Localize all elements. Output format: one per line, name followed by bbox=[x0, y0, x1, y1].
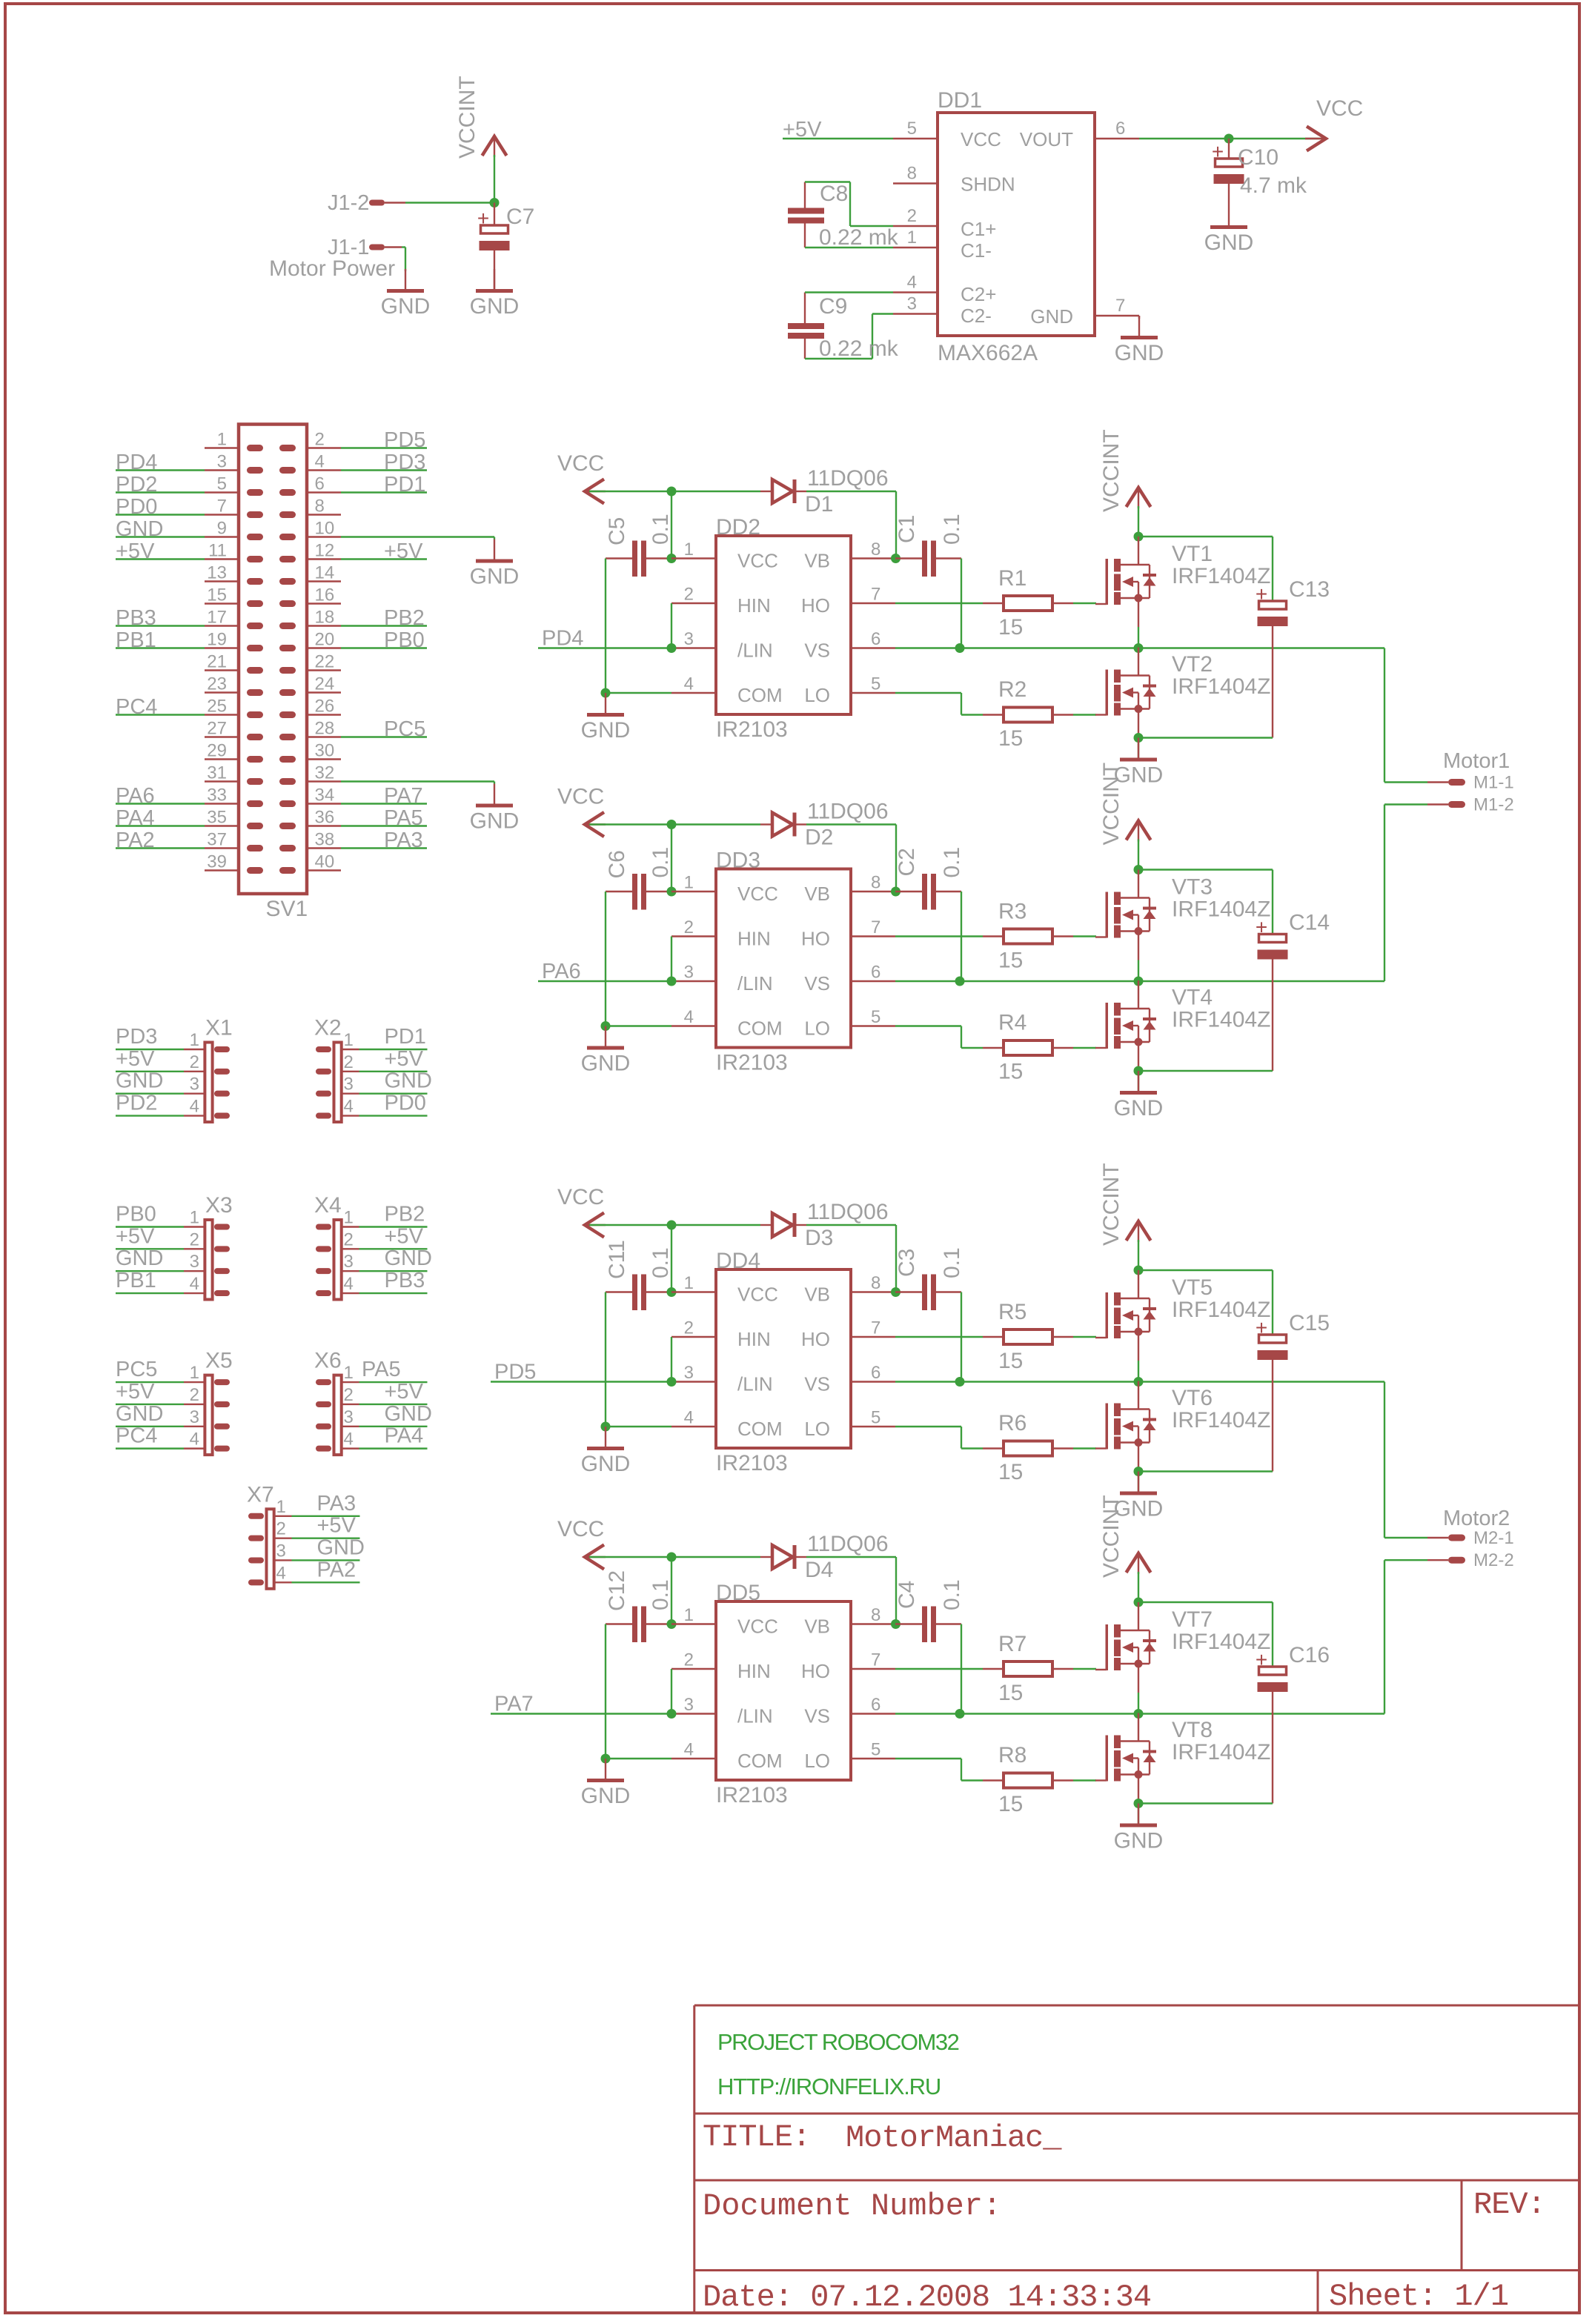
svg-text:REV:: REV: bbox=[1473, 2187, 1545, 2222]
svg-text:IRF1404Z: IRF1404Z bbox=[1172, 1408, 1270, 1432]
svg-text:M1-2: M1-2 bbox=[1473, 795, 1514, 815]
svg-text:PA3: PA3 bbox=[384, 829, 423, 852]
svg-text:X3: X3 bbox=[205, 1193, 233, 1218]
svg-text:3: 3 bbox=[344, 1407, 354, 1427]
svg-text:Date: 07.12.2008 14:33:34: Date: 07.12.2008 14:33:34 bbox=[703, 2280, 1151, 2315]
svg-text:VT2: VT2 bbox=[1172, 652, 1213, 677]
svg-text:/LIN: /LIN bbox=[737, 1705, 773, 1727]
svg-text:HO: HO bbox=[801, 594, 830, 617]
svg-text:VCC: VCC bbox=[1316, 96, 1363, 121]
svg-text:PD0: PD0 bbox=[385, 1092, 426, 1115]
svg-text:0.1: 0.1 bbox=[649, 1579, 673, 1610]
svg-text:VS: VS bbox=[804, 640, 830, 662]
svg-text:PB3: PB3 bbox=[116, 606, 156, 630]
svg-text:2: 2 bbox=[344, 1385, 354, 1405]
svg-text:PD5: PD5 bbox=[494, 1361, 536, 1384]
svg-text:SV1: SV1 bbox=[266, 897, 308, 921]
svg-text:3: 3 bbox=[684, 629, 694, 649]
svg-text:4: 4 bbox=[190, 1274, 199, 1294]
svg-text:6: 6 bbox=[1115, 119, 1125, 139]
svg-text:6: 6 bbox=[871, 629, 880, 649]
svg-text:10: 10 bbox=[315, 519, 335, 539]
svg-text:36: 36 bbox=[315, 808, 335, 828]
svg-text:15: 15 bbox=[998, 1060, 1023, 1084]
svg-text:2: 2 bbox=[315, 430, 325, 450]
svg-text:VCC: VCC bbox=[737, 1616, 778, 1638]
svg-text:R5: R5 bbox=[998, 1300, 1026, 1324]
svg-text:GND: GND bbox=[470, 294, 520, 319]
svg-text:3: 3 bbox=[190, 1252, 199, 1272]
svg-text:7: 7 bbox=[871, 585, 880, 605]
svg-text:8: 8 bbox=[315, 497, 325, 517]
svg-text:PA3: PA3 bbox=[317, 1492, 356, 1515]
svg-text:4: 4 bbox=[344, 1430, 354, 1450]
svg-text:0.1: 0.1 bbox=[649, 1247, 673, 1278]
svg-text:VT1: VT1 bbox=[1172, 542, 1213, 566]
svg-text:C4: C4 bbox=[895, 1581, 919, 1609]
svg-text:VS: VS bbox=[804, 972, 830, 995]
svg-text:5: 5 bbox=[871, 1740, 880, 1760]
svg-text:LO: LO bbox=[804, 1750, 830, 1772]
svg-text:C2+: C2+ bbox=[961, 283, 996, 305]
svg-text:VCCINT: VCCINT bbox=[1099, 1163, 1124, 1246]
svg-text:VB: VB bbox=[804, 1284, 830, 1306]
svg-text:1: 1 bbox=[684, 539, 694, 560]
svg-text:PD1: PD1 bbox=[384, 473, 425, 497]
svg-text:GND: GND bbox=[116, 1246, 163, 1270]
svg-text:DD5: DD5 bbox=[716, 1581, 760, 1605]
svg-text:6: 6 bbox=[871, 1363, 880, 1383]
svg-text:IRF1404Z: IRF1404Z bbox=[1172, 674, 1270, 699]
svg-text:VCC: VCC bbox=[557, 1517, 604, 1541]
svg-text:COM: COM bbox=[737, 1750, 783, 1772]
svg-text:HO: HO bbox=[801, 1660, 830, 1682]
svg-text:6: 6 bbox=[871, 963, 880, 983]
svg-text:COM: COM bbox=[737, 684, 783, 706]
svg-text:PD5: PD5 bbox=[384, 428, 425, 452]
svg-text:4: 4 bbox=[276, 1563, 286, 1583]
svg-text:40: 40 bbox=[315, 852, 335, 872]
svg-text:LO: LO bbox=[804, 1017, 830, 1040]
svg-text:VCCINT: VCCINT bbox=[1099, 429, 1124, 512]
svg-text:VS: VS bbox=[804, 1705, 830, 1727]
svg-text:C1-: C1- bbox=[961, 239, 992, 262]
svg-text:VCC: VCC bbox=[737, 883, 778, 905]
svg-text:R2: R2 bbox=[998, 677, 1026, 702]
svg-text:VB: VB bbox=[804, 550, 830, 572]
svg-text:C2: C2 bbox=[895, 848, 919, 876]
svg-text:MAX662A: MAX662A bbox=[938, 341, 1038, 365]
svg-text:Motor Power: Motor Power bbox=[269, 256, 395, 281]
svg-text:/LIN: /LIN bbox=[737, 640, 773, 662]
svg-text:2: 2 bbox=[684, 585, 694, 605]
svg-text:GND: GND bbox=[470, 565, 520, 589]
svg-text:PA6: PA6 bbox=[116, 784, 155, 808]
svg-text:D3: D3 bbox=[805, 1226, 833, 1250]
svg-text:HIN: HIN bbox=[737, 1328, 771, 1350]
svg-text:1: 1 bbox=[907, 228, 917, 248]
svg-text:4: 4 bbox=[190, 1097, 199, 1117]
svg-text:GND: GND bbox=[116, 1402, 163, 1426]
svg-text:PB3: PB3 bbox=[385, 1269, 425, 1292]
svg-text:1: 1 bbox=[684, 873, 694, 893]
svg-text:5: 5 bbox=[217, 474, 227, 494]
svg-text:IR2103: IR2103 bbox=[716, 1051, 788, 1075]
svg-text:HTTP://IRONFELIX.RU: HTTP://IRONFELIX.RU bbox=[717, 2074, 941, 2099]
svg-text:7: 7 bbox=[217, 497, 227, 517]
svg-text:3: 3 bbox=[684, 1695, 694, 1715]
svg-text:GND: GND bbox=[381, 294, 431, 319]
svg-text:X2: X2 bbox=[314, 1016, 342, 1040]
svg-text:11DQ06: 11DQ06 bbox=[807, 1532, 889, 1556]
svg-text:16: 16 bbox=[315, 585, 335, 605]
svg-text:7: 7 bbox=[1115, 296, 1125, 316]
svg-text:2: 2 bbox=[344, 1052, 354, 1072]
svg-text:R6: R6 bbox=[998, 1411, 1026, 1435]
svg-text:VCCINT: VCCINT bbox=[1099, 1495, 1124, 1578]
svg-text:VT6: VT6 bbox=[1172, 1386, 1213, 1410]
svg-text:VT5: VT5 bbox=[1172, 1275, 1213, 1300]
svg-text:DD2: DD2 bbox=[716, 515, 760, 539]
svg-text:24: 24 bbox=[315, 674, 335, 694]
svg-text:1: 1 bbox=[276, 1497, 286, 1517]
svg-text:GND: GND bbox=[385, 1069, 432, 1093]
svg-text:0.1: 0.1 bbox=[940, 514, 964, 545]
svg-text:3: 3 bbox=[276, 1541, 286, 1561]
svg-text:8: 8 bbox=[871, 873, 880, 893]
svg-text:15: 15 bbox=[998, 615, 1023, 640]
svg-text:VT4: VT4 bbox=[1172, 986, 1213, 1010]
svg-text:D2: D2 bbox=[805, 826, 833, 850]
svg-text:4: 4 bbox=[344, 1274, 354, 1294]
svg-text:4: 4 bbox=[190, 1430, 199, 1450]
svg-text:PC5: PC5 bbox=[384, 717, 425, 741]
svg-text:2: 2 bbox=[907, 206, 917, 226]
svg-text:2: 2 bbox=[344, 1229, 354, 1249]
svg-text:1: 1 bbox=[684, 1605, 694, 1625]
svg-text:COM: COM bbox=[737, 1418, 783, 1440]
svg-text:/LIN: /LIN bbox=[737, 1373, 773, 1395]
svg-text:9: 9 bbox=[217, 519, 227, 539]
svg-text:C8: C8 bbox=[820, 182, 848, 206]
svg-text:11DQ06: 11DQ06 bbox=[807, 800, 889, 824]
svg-text:PD4: PD4 bbox=[116, 451, 157, 474]
svg-text:SHDN: SHDN bbox=[961, 173, 1015, 196]
svg-text:HIN: HIN bbox=[737, 1660, 771, 1682]
svg-text:0.1: 0.1 bbox=[649, 847, 673, 878]
svg-text:LO: LO bbox=[804, 1418, 830, 1440]
svg-text:GND: GND bbox=[1115, 341, 1164, 365]
svg-text:+5V: +5V bbox=[384, 539, 423, 563]
svg-text:2: 2 bbox=[190, 1229, 199, 1249]
svg-text:32: 32 bbox=[315, 763, 335, 783]
svg-text:3: 3 bbox=[344, 1252, 354, 1272]
svg-text:VT3: VT3 bbox=[1172, 875, 1213, 900]
svg-text:PA2: PA2 bbox=[116, 829, 155, 852]
svg-text:25: 25 bbox=[207, 697, 227, 717]
svg-text:PB1: PB1 bbox=[116, 628, 156, 652]
svg-text:C14: C14 bbox=[1289, 911, 1330, 935]
svg-text:+5V: +5V bbox=[385, 1047, 424, 1071]
svg-text:GND: GND bbox=[581, 1452, 631, 1476]
svg-text:PB2: PB2 bbox=[384, 606, 425, 630]
svg-text:PD1: PD1 bbox=[385, 1025, 426, 1049]
svg-text:C13: C13 bbox=[1289, 577, 1330, 602]
svg-text:4: 4 bbox=[684, 1740, 694, 1760]
svg-text:VCC: VCC bbox=[557, 785, 604, 809]
svg-text:VOUT: VOUT bbox=[1020, 128, 1073, 150]
svg-text:GND: GND bbox=[385, 1246, 432, 1270]
svg-text:VCC: VCC bbox=[737, 550, 778, 572]
svg-text:PD0: PD0 bbox=[116, 495, 157, 519]
svg-text:PA7: PA7 bbox=[384, 784, 423, 808]
svg-text:IR2103: IR2103 bbox=[716, 1451, 788, 1475]
svg-text:C11: C11 bbox=[605, 1240, 629, 1279]
svg-text:PD2: PD2 bbox=[116, 473, 157, 497]
svg-text:PA4: PA4 bbox=[385, 1424, 424, 1448]
svg-text:PA6: PA6 bbox=[542, 960, 581, 983]
svg-text:GND: GND bbox=[1114, 1829, 1164, 1853]
svg-text:PB0: PB0 bbox=[116, 1203, 156, 1226]
svg-text:2: 2 bbox=[684, 1650, 694, 1670]
svg-text:15: 15 bbox=[998, 1681, 1023, 1705]
svg-text:C7: C7 bbox=[506, 205, 534, 229]
svg-text:PA2: PA2 bbox=[317, 1558, 356, 1581]
svg-text:/LIN: /LIN bbox=[737, 972, 773, 995]
svg-text:1: 1 bbox=[344, 1030, 354, 1050]
svg-text:0.1: 0.1 bbox=[940, 1247, 964, 1278]
svg-text:GND: GND bbox=[1030, 305, 1073, 328]
svg-text:33: 33 bbox=[207, 786, 227, 806]
svg-text:M2-1: M2-1 bbox=[1473, 1528, 1514, 1548]
svg-text:PD2: PD2 bbox=[116, 1092, 157, 1115]
svg-text:+5V: +5V bbox=[385, 1224, 424, 1248]
svg-text:COM: COM bbox=[737, 1017, 783, 1040]
svg-text:C3: C3 bbox=[895, 1249, 919, 1277]
svg-text:1: 1 bbox=[190, 1363, 199, 1383]
svg-text:30: 30 bbox=[315, 741, 335, 761]
svg-text:2: 2 bbox=[684, 917, 694, 937]
svg-text:M1-1: M1-1 bbox=[1473, 773, 1514, 793]
svg-text:22: 22 bbox=[315, 652, 335, 672]
svg-text:Sheet: 1/1: Sheet: 1/1 bbox=[1329, 2279, 1508, 2314]
svg-text:X7: X7 bbox=[247, 1482, 274, 1507]
svg-text:4: 4 bbox=[684, 1007, 694, 1027]
svg-text:PD3: PD3 bbox=[116, 1025, 157, 1049]
svg-text:17: 17 bbox=[207, 608, 227, 628]
svg-text:15: 15 bbox=[207, 585, 227, 605]
svg-text:4: 4 bbox=[684, 1408, 694, 1428]
svg-text:15: 15 bbox=[998, 726, 1023, 751]
svg-text:PA5: PA5 bbox=[384, 806, 423, 830]
svg-text:0.1: 0.1 bbox=[940, 1579, 964, 1610]
svg-text:VCCINT: VCCINT bbox=[455, 76, 480, 159]
svg-text:GND: GND bbox=[1114, 1096, 1164, 1120]
svg-text:14: 14 bbox=[315, 563, 335, 583]
svg-text:3: 3 bbox=[190, 1407, 199, 1427]
svg-text:VCC: VCC bbox=[737, 1284, 778, 1306]
svg-text:PC4: PC4 bbox=[116, 1424, 157, 1448]
svg-text:GND: GND bbox=[581, 718, 631, 743]
svg-text:1: 1 bbox=[190, 1030, 199, 1050]
svg-text:VS: VS bbox=[804, 1373, 830, 1395]
svg-text:C1: C1 bbox=[895, 515, 919, 543]
svg-text:12: 12 bbox=[315, 541, 335, 561]
svg-text:5: 5 bbox=[871, 674, 880, 694]
svg-text:C9: C9 bbox=[819, 294, 847, 319]
svg-text:8: 8 bbox=[871, 1273, 880, 1293]
svg-text:3: 3 bbox=[217, 452, 227, 472]
svg-text:PC5: PC5 bbox=[116, 1358, 157, 1381]
svg-text:1: 1 bbox=[190, 1208, 199, 1228]
svg-text:HIN: HIN bbox=[737, 928, 771, 950]
svg-text:X1: X1 bbox=[205, 1016, 233, 1040]
svg-text:PROJECT ROBOCOM32: PROJECT ROBOCOM32 bbox=[717, 2029, 959, 2055]
svg-text:28: 28 bbox=[315, 719, 335, 739]
svg-text:GND: GND bbox=[116, 1069, 163, 1093]
svg-text:37: 37 bbox=[207, 830, 227, 850]
svg-text:R8: R8 bbox=[998, 1743, 1026, 1767]
svg-text:4: 4 bbox=[344, 1097, 354, 1117]
svg-text:34: 34 bbox=[315, 786, 335, 806]
svg-text:R4: R4 bbox=[998, 1011, 1026, 1035]
svg-text:D1: D1 bbox=[805, 492, 833, 517]
svg-text:IR2103: IR2103 bbox=[716, 1783, 788, 1807]
svg-text:0.1: 0.1 bbox=[649, 514, 673, 545]
svg-text:VB: VB bbox=[804, 883, 830, 905]
svg-text:5: 5 bbox=[871, 1007, 880, 1027]
svg-text:X5: X5 bbox=[205, 1349, 233, 1373]
svg-text:+5V: +5V bbox=[116, 539, 155, 563]
svg-text:8: 8 bbox=[907, 164, 917, 184]
svg-text:DD3: DD3 bbox=[716, 849, 760, 873]
svg-text:HIN: HIN bbox=[737, 594, 771, 617]
svg-text:DD1: DD1 bbox=[938, 88, 982, 113]
svg-text:D4: D4 bbox=[805, 1558, 833, 1582]
svg-text:+5V: +5V bbox=[317, 1514, 356, 1538]
svg-text:HO: HO bbox=[801, 928, 830, 950]
svg-text:19: 19 bbox=[207, 630, 227, 650]
svg-text:VCCINT: VCCINT bbox=[1099, 763, 1124, 846]
svg-text:13: 13 bbox=[207, 563, 227, 583]
svg-text:1: 1 bbox=[684, 1273, 694, 1293]
svg-text:8: 8 bbox=[871, 539, 880, 560]
svg-text:4: 4 bbox=[684, 674, 694, 694]
svg-text:Motor2: Motor2 bbox=[1443, 1507, 1510, 1530]
svg-text:IR2103: IR2103 bbox=[716, 717, 788, 742]
svg-text:VT7: VT7 bbox=[1172, 1607, 1213, 1632]
svg-text:15: 15 bbox=[998, 949, 1023, 973]
svg-text:2: 2 bbox=[190, 1385, 199, 1405]
svg-text:GND: GND bbox=[1204, 230, 1254, 255]
svg-text:C2-: C2- bbox=[961, 305, 992, 327]
svg-text:+5V: +5V bbox=[116, 1047, 155, 1071]
svg-text:39: 39 bbox=[207, 852, 227, 872]
svg-text:0.22 mk: 0.22 mk bbox=[819, 336, 899, 361]
svg-text:PA4: PA4 bbox=[116, 806, 155, 830]
svg-text:PA7: PA7 bbox=[494, 1693, 534, 1716]
svg-text:11: 11 bbox=[208, 541, 227, 561]
svg-text:PB0: PB0 bbox=[384, 628, 425, 652]
svg-text:31: 31 bbox=[207, 763, 227, 783]
svg-text:GND: GND bbox=[116, 517, 163, 541]
svg-text:4: 4 bbox=[315, 452, 325, 472]
svg-text:+5V: +5V bbox=[116, 1380, 155, 1404]
svg-text:3: 3 bbox=[684, 963, 694, 983]
svg-text:LO: LO bbox=[804, 684, 830, 706]
svg-text:DD4: DD4 bbox=[716, 1249, 760, 1273]
svg-text:21: 21 bbox=[207, 652, 227, 672]
svg-text:C1+: C1+ bbox=[961, 218, 996, 240]
svg-text:7: 7 bbox=[871, 1318, 880, 1338]
svg-text:R7: R7 bbox=[998, 1632, 1026, 1656]
svg-text:X4: X4 bbox=[314, 1193, 342, 1218]
svg-text:23: 23 bbox=[207, 674, 227, 694]
svg-text:IRF1404Z: IRF1404Z bbox=[1172, 1008, 1270, 1032]
svg-text:8: 8 bbox=[871, 1605, 880, 1625]
svg-text:C15: C15 bbox=[1289, 1311, 1330, 1335]
svg-text:Motor1: Motor1 bbox=[1443, 749, 1510, 773]
svg-text:GND: GND bbox=[581, 1052, 631, 1076]
svg-text:15: 15 bbox=[998, 1792, 1023, 1816]
svg-text:0.1: 0.1 bbox=[940, 847, 964, 878]
svg-text:VT8: VT8 bbox=[1172, 1718, 1213, 1742]
svg-text:3: 3 bbox=[684, 1363, 694, 1383]
svg-text:HO: HO bbox=[801, 1328, 830, 1350]
svg-text:11DQ06: 11DQ06 bbox=[807, 466, 889, 491]
svg-text:35: 35 bbox=[207, 808, 227, 828]
svg-text:GND: GND bbox=[385, 1402, 432, 1426]
svg-text:GND: GND bbox=[317, 1535, 365, 1559]
svg-text:3: 3 bbox=[907, 294, 917, 314]
svg-text:PA5: PA5 bbox=[362, 1358, 401, 1381]
svg-text:PC4: PC4 bbox=[116, 695, 157, 719]
svg-text:3: 3 bbox=[190, 1075, 199, 1095]
svg-text:J1-2: J1-2 bbox=[328, 191, 369, 215]
svg-text:11DQ06: 11DQ06 bbox=[807, 1200, 889, 1224]
svg-text:Document Number:: Document Number: bbox=[703, 2188, 1001, 2224]
svg-text:VCC: VCC bbox=[961, 128, 1001, 150]
svg-text:20: 20 bbox=[315, 630, 335, 650]
svg-text:PB2: PB2 bbox=[385, 1203, 425, 1226]
svg-text:VB: VB bbox=[804, 1616, 830, 1638]
svg-text:C5: C5 bbox=[605, 517, 629, 545]
svg-text:R1: R1 bbox=[998, 566, 1026, 591]
svg-text:IRF1404Z: IRF1404Z bbox=[1172, 1740, 1270, 1764]
svg-text:2: 2 bbox=[190, 1052, 199, 1072]
svg-text:VCC: VCC bbox=[557, 1185, 604, 1209]
svg-text:VCC: VCC bbox=[557, 451, 604, 476]
svg-text:4.7 mk: 4.7 mk bbox=[1240, 173, 1307, 198]
svg-text:M2-2: M2-2 bbox=[1473, 1550, 1514, 1570]
svg-text:GND: GND bbox=[581, 1784, 631, 1808]
svg-text:C12: C12 bbox=[605, 1570, 629, 1611]
svg-text:5: 5 bbox=[871, 1408, 880, 1428]
svg-text:15: 15 bbox=[998, 1349, 1023, 1373]
svg-text:15: 15 bbox=[998, 1460, 1023, 1484]
svg-text:C16: C16 bbox=[1289, 1643, 1330, 1667]
svg-text:2: 2 bbox=[684, 1318, 694, 1338]
svg-text:7: 7 bbox=[871, 1650, 880, 1670]
svg-text:27: 27 bbox=[207, 719, 227, 739]
svg-text:PD3: PD3 bbox=[384, 451, 425, 474]
svg-text:PB1: PB1 bbox=[116, 1269, 156, 1292]
svg-text:4: 4 bbox=[907, 273, 917, 293]
svg-text:+5V: +5V bbox=[116, 1224, 155, 1248]
svg-text:MotorManiac_: MotorManiac_ bbox=[846, 2120, 1062, 2156]
svg-text:26: 26 bbox=[315, 697, 335, 717]
svg-text:1: 1 bbox=[217, 430, 227, 450]
